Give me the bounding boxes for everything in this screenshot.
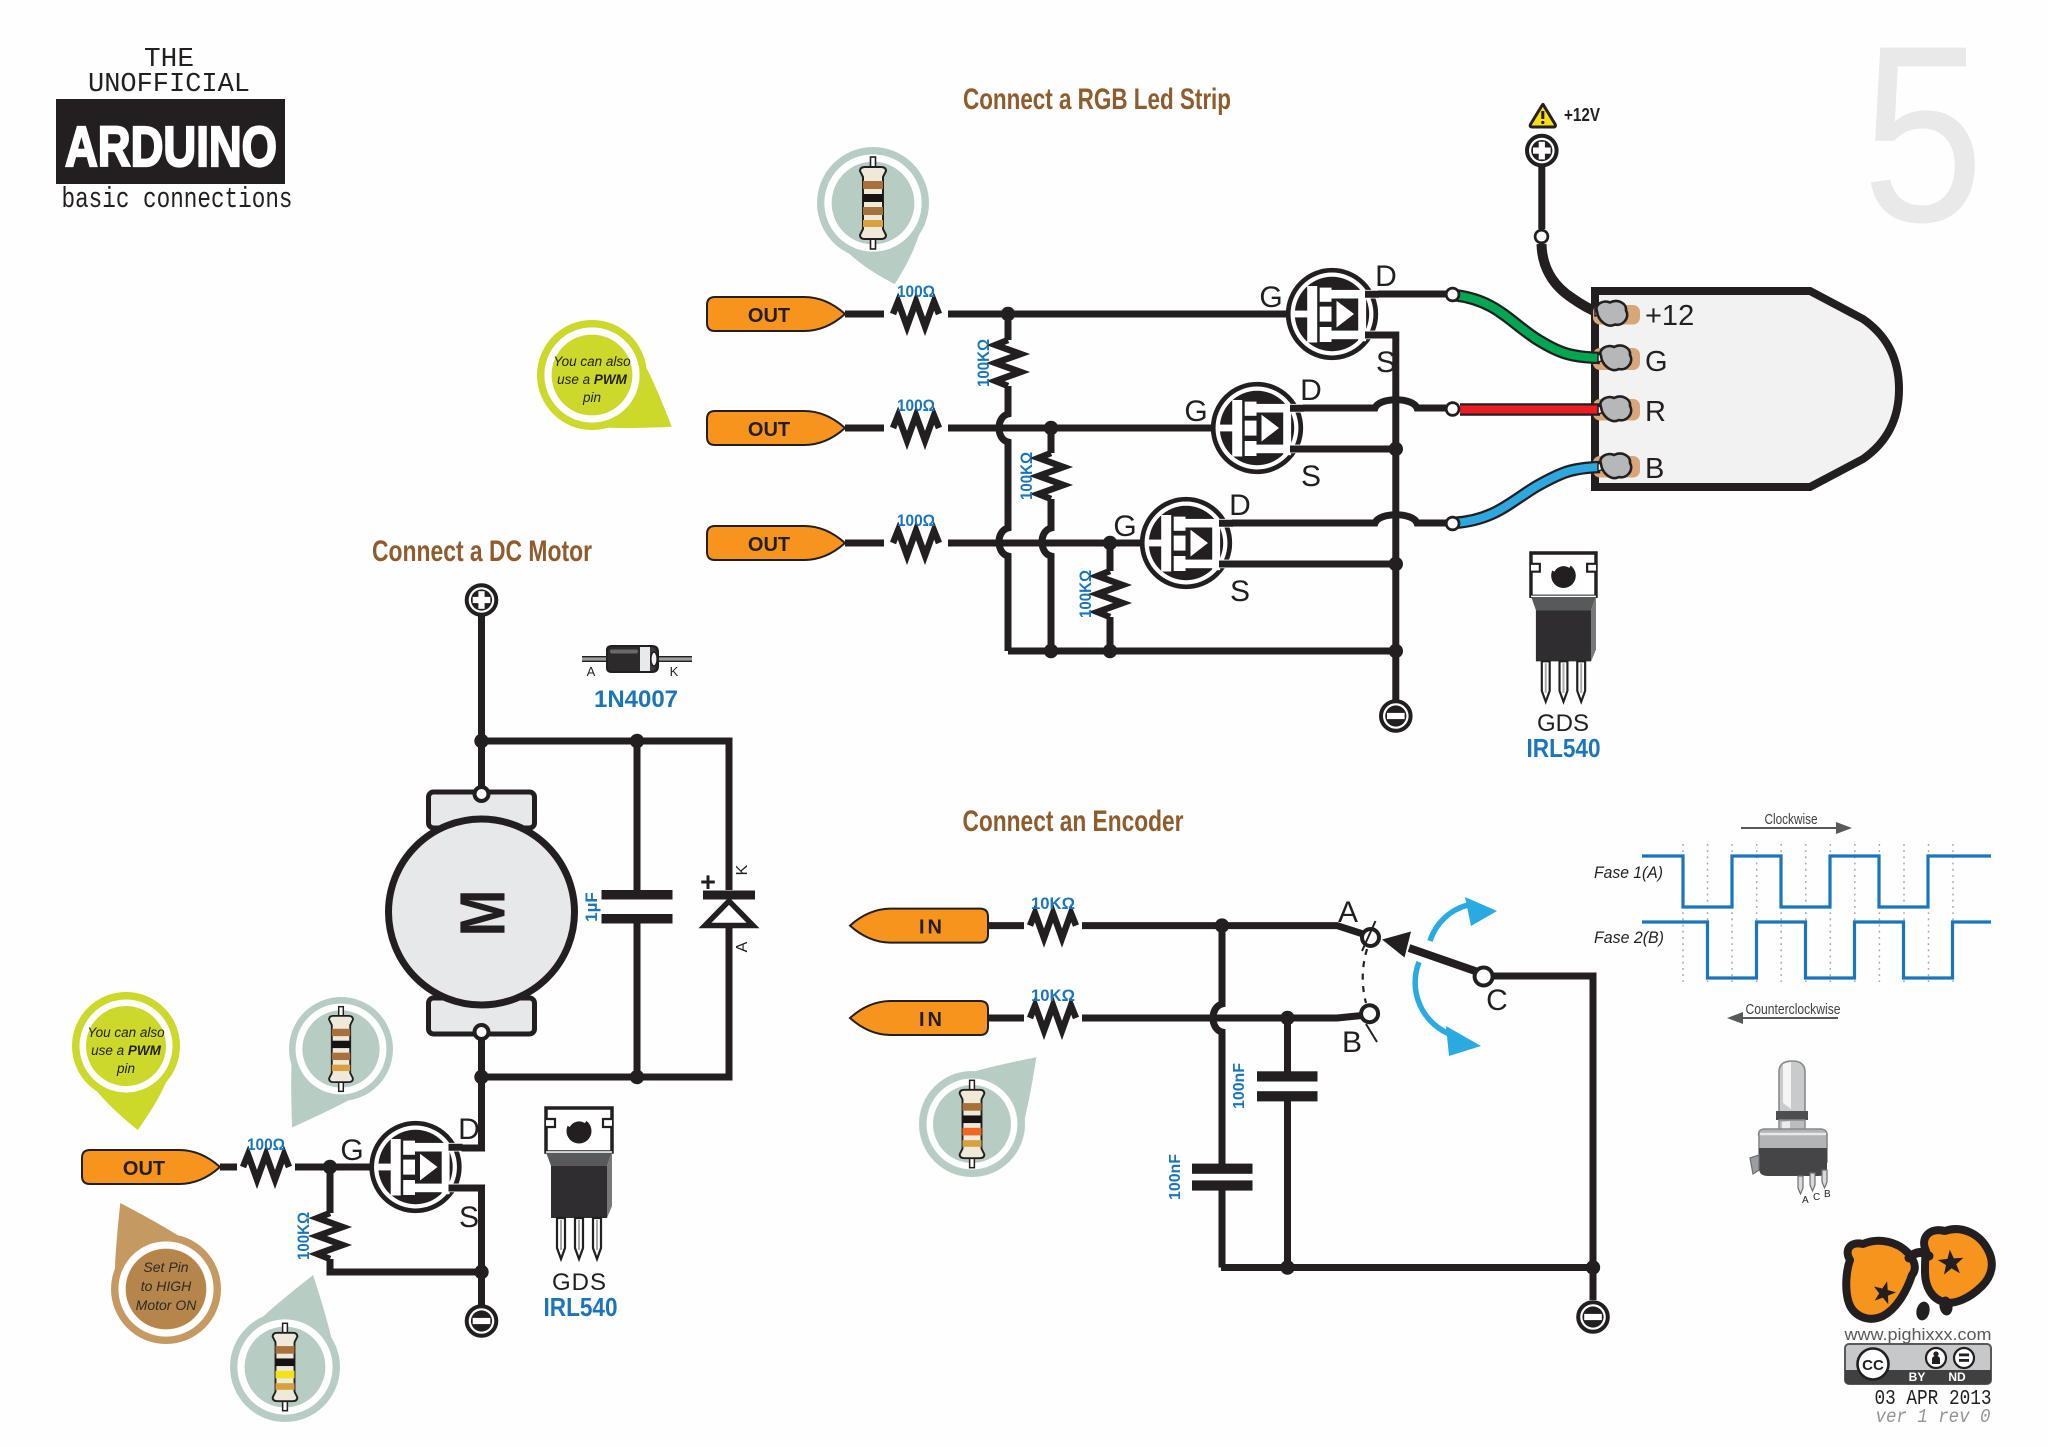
- motor bottom terminal: [475, 1025, 489, 1039]
- wire: Q2 source to bus: [1298, 446, 1392, 453]
- solder blob on B pad: [1598, 463, 1612, 471]
- wire: bottom rail (snubber return): [482, 925, 730, 1077]
- encoder contact A: [1362, 929, 1379, 946]
- ground symbol (encoder): [1578, 1302, 1608, 1332]
- svg-text:D: D: [1300, 374, 1322, 407]
- capacitor C2 100nF plates: [1192, 1164, 1253, 1174]
- rotation arrow clockwise (cyan): [1430, 905, 1468, 941]
- svg-text:100Ω: 100Ω: [897, 282, 935, 301]
- wire: encoder common C to ground rail: [1493, 976, 1593, 1300]
- svg-text:100nF: 100nF: [1167, 1154, 1184, 1200]
- waveform phase B trace: [1642, 922, 1991, 978]
- svg-text:OUT: OUT: [748, 305, 790, 327]
- svg-text:+: +: [700, 867, 716, 897]
- svg-text:IRL540: IRL540: [544, 1292, 618, 1322]
- node: C3 to rail: [1280, 1260, 1294, 1274]
- connector: red wire: [1446, 403, 1459, 416]
- svg-text:CC: CC: [1862, 1357, 1884, 1374]
- node: motor bottom junction: [474, 1070, 488, 1084]
- capacitor C1 1uF plates: [602, 890, 673, 900]
- resistor R7 100ohm: [237, 1153, 295, 1181]
- wire: supply to motor top: [478, 615, 485, 787]
- resistor R8 100Kohm: [318, 1213, 343, 1259]
- svg-text:R: R: [1645, 396, 1666, 428]
- svg-text:G: G: [1259, 281, 1282, 314]
- encoder switch lever: [1409, 948, 1478, 972]
- svg-text:Fase 1(A): Fase 1(A): [1594, 863, 1663, 882]
- wire: motor bottom to bottom rail and Q4 drain: [459, 1039, 482, 1148]
- connector: green wire: [1446, 288, 1459, 301]
- IRL540 package (motor): [546, 1108, 612, 1259]
- wire: red wire Q2 drain to R pad: [1460, 403, 1600, 416]
- svg-text:1µF: 1µF: [582, 892, 601, 922]
- rotary encoder photo: [1750, 1061, 1827, 1194]
- motor top terminal: [475, 787, 489, 801]
- RGB led strip body: [1595, 291, 1899, 487]
- node: R6 to rail: [1103, 644, 1117, 658]
- wire: +12V black wire to strip: [1542, 244, 1600, 313]
- motor top tab: [429, 792, 535, 828]
- pad B on strip: [1593, 456, 1640, 478]
- svg-text:A: A: [734, 941, 751, 952]
- svg-text:basic connections: basic connections: [62, 183, 293, 216]
- svg-text:You can also: You can also: [87, 1025, 165, 1040]
- svg-text:K: K: [734, 864, 751, 875]
- svg-text:1N4007: 1N4007: [594, 686, 678, 713]
- svg-text:use a PWM: use a PWM: [91, 1043, 162, 1058]
- svg-text:D: D: [1229, 489, 1251, 522]
- pighixxx logo bridge: [1909, 1252, 1929, 1258]
- node: cap top: [630, 734, 644, 748]
- wire: ground rail of RGB section: [1008, 648, 1396, 655]
- wire: Q1 drain to green connector: [1374, 291, 1446, 298]
- svg-text:Connect a DC Motor: Connect a DC Motor: [372, 535, 592, 568]
- resistor R6 100Kohm: [1098, 571, 1123, 617]
- screw terminal +12V supply: [1527, 136, 1557, 166]
- pighixxx logo star left: [1874, 1281, 1896, 1304]
- svg-text:+12V: +12V: [1564, 105, 1600, 125]
- svg-text:S: S: [1376, 346, 1396, 379]
- node: R5 to rail: [1044, 644, 1058, 658]
- svg-text:100Ω: 100Ω: [247, 1135, 285, 1154]
- diode D1 triangle: [705, 901, 753, 926]
- svg-text:S: S: [1230, 575, 1250, 608]
- svg-text:UNOFFICIAL: UNOFFICIAL: [88, 70, 250, 100]
- node: rail to bus: [1389, 644, 1403, 658]
- svg-text:Set Pin: Set Pin: [143, 1259, 188, 1275]
- pin OUT 1: [707, 297, 845, 331]
- svg-text:5: 5: [1862, 0, 1984, 275]
- svg-text:OUT: OUT: [748, 419, 790, 441]
- svg-text:ND: ND: [1948, 1370, 1966, 1384]
- svg-text:Clockwise: Clockwise: [1765, 811, 1818, 828]
- svg-text:B: B: [1824, 1189, 1831, 1200]
- screw terminal + supply (motor): [467, 585, 497, 615]
- node: junction OUT3/R6: [1103, 536, 1117, 550]
- wire: Q3 source to bus: [1228, 561, 1392, 568]
- svg-text:pin: pin: [116, 1061, 135, 1076]
- wire: OUT to Q4 gate: [220, 1164, 372, 1171]
- node: Q3 source to bus: [1389, 557, 1403, 571]
- warning symbol +12V: [1530, 104, 1555, 127]
- CC license badge: [1845, 1344, 1991, 1384]
- node: cap bottom: [630, 1070, 644, 1084]
- node: supply/top rail: [474, 734, 488, 748]
- svg-text:Fase 2(B): Fase 2(B): [1594, 928, 1664, 947]
- wire: Q3 drain to blue connector (hop over bus): [1228, 515, 1446, 523]
- svg-text:M: M: [447, 890, 519, 937]
- transistor Q1 IRL540: [1288, 270, 1379, 358]
- svg-text:to HIGH: to HIGH: [141, 1278, 192, 1294]
- IRL540 package (RGB section): [1531, 553, 1596, 702]
- wire: cap branch bottom: [634, 923, 641, 1077]
- pin IN 2: [850, 1001, 988, 1035]
- pighixxx logo star right: [1938, 1250, 1964, 1275]
- svg-text:BY: BY: [1909, 1370, 1926, 1384]
- svg-text:Connect a RGB Led Strip: Connect a RGB Led Strip: [963, 83, 1231, 116]
- node: junction OUT2/R5: [1044, 421, 1058, 435]
- pad G on strip: [1593, 348, 1640, 370]
- node: junction OUT1/R4: [1001, 307, 1015, 321]
- svg-text:You can also: You can also: [553, 354, 631, 369]
- wire: OUT2 row to gate of Q2: [845, 425, 1217, 432]
- wire: debounce net B vertical: [1284, 1018, 1291, 1072]
- node: B row / C3: [1280, 1011, 1294, 1025]
- pighixxx logo mask left lobe: [1846, 1241, 1915, 1319]
- callout: resistor bubble (motor, 100K): [230, 1275, 340, 1422]
- arrow counterclockwise (gray): [1741, 1017, 1838, 1019]
- pad +12 on strip: [1593, 305, 1640, 325]
- wire: pulldown net 3 vertical: [1107, 543, 1114, 651]
- wire: top rail to snubber: [482, 741, 730, 890]
- solder blob on +12 pad: [1595, 308, 1609, 316]
- encoder contact C: [1475, 968, 1493, 986]
- dashed link A-B: [1363, 949, 1367, 1003]
- 1N4007 photo: [582, 646, 692, 672]
- svg-text:10KΩ: 10KΩ: [1031, 986, 1075, 1005]
- encoder contact B: [1361, 1005, 1378, 1022]
- svg-text:OUT: OUT: [748, 534, 790, 556]
- wire: C2 bottom lead: [1219, 1190, 1226, 1268]
- callout: resistor bubble (encoder 10K): [919, 1057, 1036, 1177]
- connector: +12V wire crimp: [1535, 230, 1548, 243]
- wire: cap branch top: [634, 741, 641, 890]
- svg-text:B: B: [1342, 1026, 1362, 1059]
- motor bottom tab: [429, 998, 535, 1034]
- transistor Q2 IRL540: [1213, 384, 1304, 472]
- resistor R1 100ohm: [884, 300, 948, 328]
- wire: source bus to ground: [1376, 335, 1396, 700]
- resistor R4 100Kohm: [996, 340, 1021, 386]
- node: Q2 source to bus: [1389, 442, 1403, 456]
- svg-text:G: G: [1113, 510, 1136, 543]
- node: gate junction (motor): [323, 1160, 337, 1174]
- svg-text:Counterclockwise: Counterclockwise: [1746, 1001, 1841, 1018]
- solder blob on R pad: [1598, 406, 1612, 414]
- svg-text:IN: IN: [919, 1009, 945, 1031]
- pighixxx logo mask right lobe: [1924, 1229, 1992, 1303]
- wire: pulldown net 1 vertical with hops: [999, 314, 1008, 651]
- callout: resistor bubble (RGB section): [817, 147, 929, 284]
- resistor R2 100ohm: [884, 414, 948, 442]
- wire: C3 bottom lead: [1284, 1101, 1291, 1268]
- connector: blue wire: [1446, 517, 1459, 530]
- node: rail to ground: [1586, 1260, 1600, 1274]
- svg-text:10KΩ: 10KΩ: [1031, 894, 1075, 913]
- wire: IN1 row to encoder A: [988, 926, 1363, 934]
- svg-text:pin: pin: [582, 390, 601, 405]
- svg-text:G: G: [1184, 395, 1207, 428]
- svg-text:+12: +12: [1645, 300, 1694, 332]
- wire: Q4 source to ground rail: [459, 1188, 482, 1305]
- svg-text:A: A: [587, 664, 596, 679]
- wire: green wire Q1 drain to G pad: [1454, 295, 1600, 358]
- svg-text:A: A: [1802, 1195, 1809, 1206]
- resistor R3 100ohm: [884, 529, 948, 557]
- svg-text:G: G: [340, 1134, 363, 1167]
- resistor R5 100Kohm: [1039, 453, 1064, 499]
- ground symbol (motor): [467, 1306, 497, 1336]
- svg-text:100Ω: 100Ω: [897, 511, 935, 530]
- wire: +12V supply lead: [1538, 166, 1545, 229]
- pighixxx logo nostrils: [1915, 1300, 1932, 1321]
- svg-text:K: K: [670, 664, 679, 679]
- wire: OUT1 row to gate of Q1: [845, 311, 1292, 318]
- svg-text:A: A: [1338, 896, 1358, 929]
- callout: set pin to HIGH motor ON: [111, 1203, 221, 1344]
- resistor R9 10Kohm: [1024, 911, 1082, 939]
- svg-text:Motor ON: Motor ON: [136, 1297, 198, 1313]
- svg-text:D: D: [458, 1113, 480, 1146]
- waveform phase A trace: [1642, 856, 1991, 907]
- waveform grid dashed lines: [1683, 844, 1953, 982]
- capacitor C3 100nF plates: [1257, 1071, 1318, 1081]
- wire: pulldown net 2 vertical with hop: [1042, 428, 1051, 651]
- ground symbol (RGB section): [1381, 701, 1411, 731]
- svg-text:use a PWM: use a PWM: [557, 372, 628, 387]
- callout: resistor bubble (motor, 100 ohm): [289, 997, 393, 1128]
- svg-text:Connect an Encoder: Connect an Encoder: [963, 805, 1184, 838]
- svg-text:D: D: [1375, 260, 1397, 293]
- node: A row / C2: [1215, 918, 1229, 932]
- svg-text:C: C: [1813, 1192, 1820, 1203]
- svg-text:IRL540: IRL540: [1527, 733, 1601, 763]
- pin IN 1: [850, 909, 988, 943]
- resistor R10 10Kohm: [1024, 1004, 1082, 1032]
- svg-text:IN: IN: [919, 917, 945, 939]
- wire: IN2 row to encoder B: [988, 1016, 1362, 1019]
- diode D1 cathode bar: [703, 891, 755, 900]
- svg-text:100Ω: 100Ω: [897, 396, 935, 415]
- transistor Q3 IRL540: [1142, 499, 1233, 587]
- svg-text:S: S: [1301, 460, 1321, 493]
- svg-text:S: S: [459, 1201, 479, 1234]
- wire: debounce net A vertical (hop over B row): [1213, 926, 1222, 1164]
- rotation arrow counterclockwise (cyan): [1415, 962, 1452, 1035]
- svg-text:100KΩ: 100KΩ: [1017, 452, 1036, 500]
- svg-text:www.pighixxx.com: www.pighixxx.com: [1843, 1325, 1991, 1344]
- svg-text:G: G: [1645, 346, 1668, 378]
- pin OUT (motor): [82, 1150, 220, 1184]
- wire: bottom rail (encoder): [1221, 1264, 1593, 1271]
- svg-text:B: B: [1645, 453, 1664, 485]
- svg-text:OUT: OUT: [123, 1158, 165, 1180]
- wire: blue wire Q3 drain to B pad: [1454, 467, 1600, 523]
- svg-text:C: C: [1486, 984, 1508, 1017]
- wire: Q2 drain to red connector (hop over bus): [1298, 400, 1446, 408]
- arrow clockwise (gray): [1741, 827, 1838, 829]
- svg-text:100KΩ: 100KΩ: [294, 1212, 313, 1260]
- callout: you can also use a PWM pin (RGB section): [537, 320, 672, 430]
- svg-text:ver 1 rev 0: ver 1 rev 0: [1876, 1406, 1991, 1428]
- node: source/pulldown junction: [474, 1265, 488, 1279]
- pad R on strip: [1593, 399, 1640, 421]
- svg-text:100KΩ: 100KΩ: [1076, 570, 1095, 618]
- wire: OUT3 row to gate of Q3: [845, 540, 1146, 547]
- pin OUT 3: [707, 526, 845, 560]
- ARDUINO logo black box: [56, 99, 285, 184]
- svg-text:100nF: 100nF: [1231, 1063, 1248, 1109]
- svg-text:ARDUINO: ARDUINO: [65, 115, 277, 179]
- svg-text:100KΩ: 100KΩ: [974, 339, 993, 387]
- pin OUT 2: [707, 411, 845, 445]
- callout: you can also use a PWM pin (motor): [72, 992, 180, 1130]
- motor M1 body: [389, 819, 575, 1005]
- solder blob on G pad: [1598, 354, 1612, 362]
- wire: gate pulldown net (motor): [330, 1167, 482, 1272]
- transistor Q4 IRL540: [372, 1123, 463, 1211]
